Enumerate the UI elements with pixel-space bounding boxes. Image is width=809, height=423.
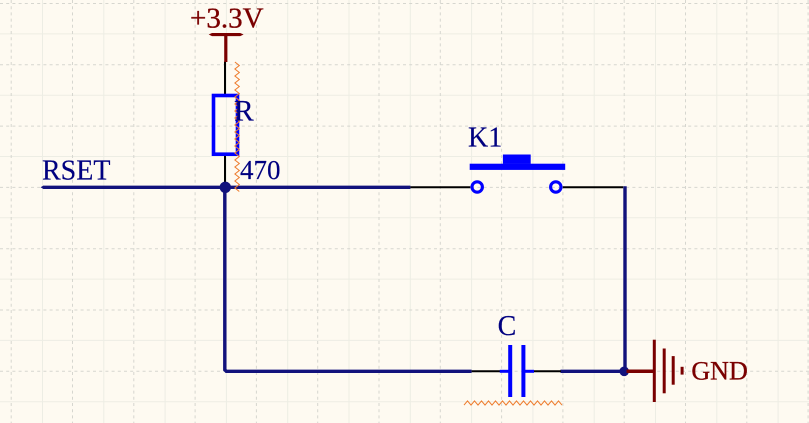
svg-text:RSET: RSET	[42, 156, 110, 187]
svg-text:C: C	[498, 311, 517, 342]
svg-text:R: R	[234, 96, 254, 128]
svg-text:GND: GND	[691, 356, 747, 385]
svg-text:470: 470	[240, 155, 281, 185]
svg-text:K1: K1	[468, 122, 502, 153]
svg-text:+3.3V: +3.3V	[190, 3, 264, 35]
